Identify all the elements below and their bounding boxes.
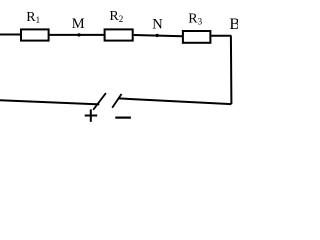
battery positive plate (long, slanted)	[93, 93, 106, 110]
battery plus label	[85, 109, 98, 121]
wire R2 to R3	[134, 35, 183, 36]
battery minus label	[115, 116, 131, 118]
resistor R1	[21, 10, 49, 41]
svg-text:R2: R2	[109, 9, 123, 24]
wire left top entering from edge to R1	[0, 34, 21, 36]
svg-text:R3: R3	[188, 12, 202, 27]
wire bottom left from battery positive to left edge	[0, 100, 99, 104]
node N	[152, 17, 163, 38]
node M	[72, 16, 85, 36]
wire bottom right from corner to battery negative	[118, 98, 231, 104]
svg-text:N: N	[152, 17, 163, 33]
svg-text:M: M	[72, 16, 85, 32]
wire right vertical	[230, 36, 233, 104]
svg-text:B: B	[229, 16, 238, 33]
resistor R2	[105, 9, 133, 41]
wire R3 to right corner	[211, 35, 231, 37]
resistor R3	[183, 12, 211, 43]
wire R1 to R2	[50, 34, 105, 36]
battery negative plate (short, slanted)	[112, 94, 121, 108]
svg-text:R1: R1	[26, 10, 40, 25]
